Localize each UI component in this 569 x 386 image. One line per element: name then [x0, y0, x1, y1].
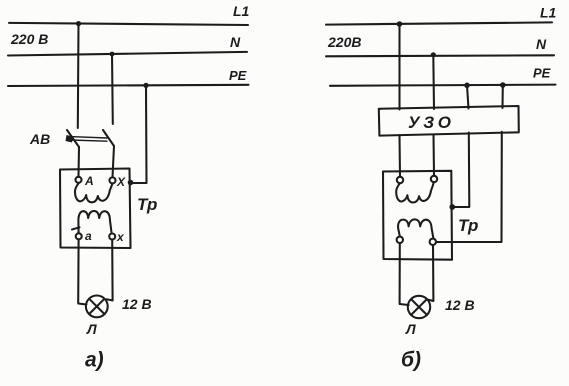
junction on L1 right — [397, 21, 403, 27]
wire RCD PE1 to transformer case — [454, 133, 469, 208]
wire RCD PE2 to terminal x right — [436, 132, 502, 242]
terminal x right circle — [430, 239, 436, 245]
svg-text:а: а — [85, 229, 92, 243]
svg-text:N: N — [230, 34, 241, 50]
wire PE2 to RCD — [501, 85, 503, 108]
bus PE left — [8, 85, 249, 86]
svg-text:АВ: АВ — [29, 131, 50, 147]
svg-text:220 В: 220 В — [10, 31, 48, 47]
wire breaker pole1 to terminal A — [77, 147, 80, 176]
svg-text:А: А — [84, 174, 94, 188]
wire RCD to terminal X right — [432, 135, 435, 176]
breaker AB pole 1 blade — [67, 130, 79, 147]
terminal A right circle — [397, 177, 403, 183]
wire a right to lamp — [400, 243, 409, 305]
wire N to RCD — [432, 55, 435, 109]
svg-text:N: N — [536, 36, 547, 52]
svg-text:PE: PE — [229, 68, 247, 83]
lamp L left — [86, 296, 108, 318]
svg-text:Х: Х — [116, 175, 126, 189]
wire x to lamp — [107, 240, 113, 301]
wire RCD to terminal A right — [398, 135, 401, 177]
junction on L1 left — [76, 21, 81, 26]
svg-text:Л: Л — [86, 321, 97, 337]
svg-text:220В: 220В — [327, 34, 361, 50]
svg-text:12 В: 12 В — [445, 297, 475, 313]
transformer Tp right box — [383, 171, 452, 260]
junction at transformer case right — [449, 204, 455, 210]
bus L1 left — [9, 23, 248, 25]
terminal x circle — [109, 234, 115, 240]
svg-text:УЗО: УЗО — [408, 113, 455, 132]
junction on PE right 2 — [500, 82, 506, 88]
bus N left — [8, 52, 247, 56]
terminal X right circle — [431, 176, 437, 182]
svg-text:L1: L1 — [233, 3, 250, 19]
breaker AB pole 2 blade — [103, 130, 114, 146]
wire a to lamp — [78, 240, 86, 305]
junction on N left — [110, 52, 115, 57]
junction on N right — [431, 52, 436, 57]
breaker AB tie bar end blob — [66, 135, 74, 143]
secondary winding left — [78, 211, 111, 233]
svg-text:Л: Л — [405, 321, 416, 337]
primary winding left — [75, 183, 112, 202]
junction at transformer case left — [128, 180, 134, 186]
transformer Tp left box — [60, 169, 131, 249]
terminal A circle — [76, 177, 82, 183]
wire L1 to RCD — [398, 24, 400, 110]
terminal a circle — [76, 233, 82, 239]
breaker AB tie bar — [70, 137, 107, 138]
secondary winding right — [398, 219, 433, 238]
terminal a right circle — [397, 237, 403, 243]
svg-text:Тр: Тр — [137, 195, 157, 214]
wire breaker pole2 to terminal X — [113, 146, 115, 177]
svg-text:PE: PE — [533, 66, 551, 81]
terminal X circle — [110, 177, 116, 183]
svg-text:б): б) — [401, 349, 421, 372]
svg-text:12 В: 12 В — [122, 296, 152, 312]
svg-text:L1: L1 — [540, 5, 557, 21]
wire N to breaker pole 2 — [111, 54, 114, 124]
wire PE1 to RCD — [467, 85, 469, 108]
wire L1 to breaker pole 1 — [77, 24, 80, 128]
svg-text:х: х — [116, 230, 125, 244]
bus L1 right — [326, 22, 552, 24]
bus N right — [326, 55, 554, 56]
wire PE to transformer case — [131, 85, 147, 183]
secondary left terminal tick — [72, 227, 80, 229]
primary winding right — [396, 183, 433, 203]
junction on PE left — [143, 83, 148, 88]
junction on PE right 1 — [464, 83, 470, 89]
wire x right to lamp — [428, 245, 433, 301]
bus PE right — [330, 85, 556, 86]
svg-text:Тр: Тр — [458, 216, 478, 235]
lamp L right — [408, 296, 430, 318]
svg-text:а): а) — [85, 349, 104, 372]
RCD UZO box — [379, 106, 519, 136]
